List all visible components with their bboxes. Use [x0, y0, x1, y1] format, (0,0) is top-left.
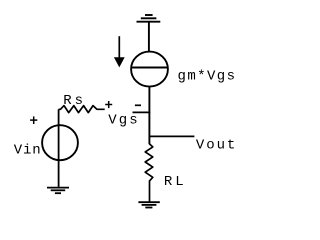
- plus sign (gate side of Vgs): [105, 101, 112, 108]
- ground (below Vin): [47, 188, 69, 194]
- wire (current source to RL node): [148, 87, 150, 144]
- wire (through Vin source, top corner to ground): [58, 109, 60, 187]
- svg-text:Vgs: Vgs: [108, 113, 137, 129]
- wire (top ground to current source): [148, 22, 150, 52]
- wire (Vout branch): [149, 135, 194, 137]
- plus sign (Vin): [30, 116, 37, 124]
- svg-text:Vout: Vout: [196, 137, 235, 153]
- svg-text:Vin: Vin: [14, 143, 41, 159]
- resistor RL: [145, 144, 153, 202]
- dependent current source gm*Vgs: [131, 52, 168, 87]
- ground (below RL): [138, 202, 159, 207]
- minus sign (Vgs): [135, 104, 141, 106]
- resistor Rs: [59, 106, 105, 113]
- Vgs minus terminal tick: [133, 111, 151, 113]
- voltage source Vin: [42, 125, 78, 160]
- ground (top, above current source): [137, 15, 161, 22]
- current direction arrow: [114, 36, 125, 67]
